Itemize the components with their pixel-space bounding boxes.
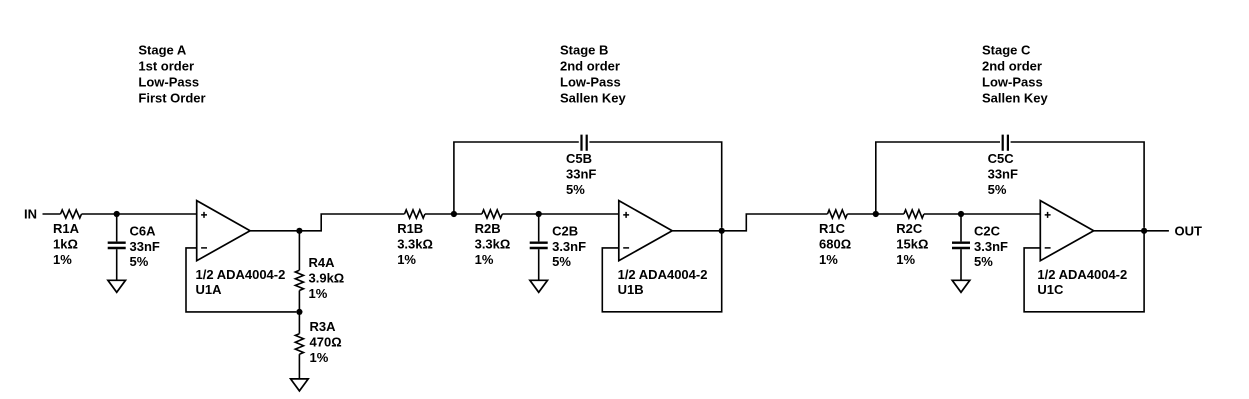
svg-text:Stage A: Stage A [138,42,187,57]
labels C5B [566,151,596,197]
labels R3A [310,319,342,365]
wire C5C right feedback [1011,142,1145,228]
labels R1C [819,221,851,267]
wire R2C to U1C + input [924,213,1040,215]
wire C6A top lead [116,214,118,241]
wire R4A top lead [298,231,300,270]
node A1 (R1A/C6A junction) [114,211,120,217]
wire C5B right feedback [589,142,721,228]
svg-text:1/2 ADA4004-2: 1/2 ADA4004-2 [196,267,286,282]
svg-text:3.3nF: 3.3nF [974,239,1008,254]
svg-text:2nd order: 2nd order [560,58,620,73]
node A3 (R4A/R3A junction) [296,309,302,315]
node B2 (R2B/C2B junction) [536,211,542,217]
wire C2C top lead [960,214,962,241]
svg-text:470Ω: 470Ω [310,335,342,350]
op-amp U1B [619,201,672,261]
labels U1A [196,267,286,297]
svg-text:33nF: 33nF [988,167,1018,182]
svg-text:U1B: U1B [618,282,644,297]
svg-text:C5C: C5C [988,151,1015,166]
svg-text:15kΩ: 15kΩ [896,236,928,251]
svg-text:1%: 1% [475,252,494,267]
ground (C6A) [108,280,126,292]
wire output lead to OUT [1144,230,1169,232]
svg-text:33nF: 33nF [130,239,160,254]
resistor R3A [295,334,303,355]
labels R1B [397,221,433,267]
ground (R3A) [291,379,309,391]
svg-text:1/2 ADA4004-2: 1/2 ADA4004-2 [618,267,708,282]
labels R2B [475,221,511,267]
svg-text:1/2 ADA4004-2: 1/2 ADA4004-2 [1037,267,1127,282]
svg-text:OUT: OUT [1175,224,1203,239]
svg-text:5%: 5% [988,182,1007,197]
svg-text:C6A: C6A [130,224,157,239]
svg-text:C5B: C5B [566,151,592,166]
svg-text:1%: 1% [53,252,72,267]
wire C2C bottom lead [960,249,962,280]
svg-text:R1B: R1B [397,221,423,236]
ground (C2B) [530,280,548,292]
capacitor C2B plates [530,243,548,248]
resistor R1B [405,210,425,218]
wire C2B bottom lead [538,249,540,280]
wire U1B output [672,230,722,232]
svg-text:5%: 5% [130,254,149,269]
svg-text:5%: 5% [566,182,585,197]
svg-text:R1C: R1C [819,221,846,236]
wire U1A output [250,230,299,232]
capacitor C5B plates [582,135,587,151]
svg-text:C2C: C2C [974,224,1001,239]
svg-text:1%: 1% [896,252,915,267]
wire U1C feedback loop [1024,231,1144,312]
svg-text:Sallen Key: Sallen Key [560,90,627,105]
node C1 (R1C/R2C/C5C junction) [873,211,879,217]
labels C5C [988,151,1018,197]
wire IN lead to R1A [43,213,61,215]
svg-text:C2B: C2B [552,224,578,239]
text block: Stage C title [982,42,1049,105]
svg-text:5%: 5% [974,254,993,269]
op-amp U1C [1040,201,1093,261]
ground (C2C) [952,280,970,292]
wire R4A to R3A [298,291,300,334]
wire C6A bottom lead [116,249,118,280]
labels C2C [974,224,1008,270]
node C2 (R2C/C2C junction) [958,211,964,217]
wire R1B to R2B [425,213,482,215]
svg-text:680Ω: 680Ω [819,236,851,251]
svg-text:3.3kΩ: 3.3kΩ [397,236,433,251]
svg-text:Low-Pass: Low-Pass [982,74,1043,89]
svg-text:R1A: R1A [53,221,80,236]
svg-text:3.3nF: 3.3nF [552,239,586,254]
resistor R2B [482,210,502,218]
svg-text:2nd order: 2nd order [982,58,1042,73]
svg-text:Stage C: Stage C [982,42,1031,57]
text block: Stage A title [138,42,205,105]
svg-text:Sallen Key: Sallen Key [982,90,1049,105]
capacitor C5C plates [1003,135,1008,151]
labels U1B [618,267,708,297]
labels C2B [552,224,586,270]
svg-text:U1C: U1C [1037,282,1064,297]
svg-text:IN: IN [24,207,37,222]
wire C2B top lead [538,214,540,241]
svg-text:3.9kΩ: 3.9kΩ [309,271,345,286]
node C3 (U1C output) [1141,228,1147,234]
node B1 (R1B/R2B/C5B junction) [451,211,457,217]
svg-text:Low-Pass: Low-Pass [560,74,621,89]
labels C6A [130,224,160,270]
svg-text:1%: 1% [819,252,838,267]
wire R3A bottom lead [298,354,300,379]
resistor R1A [61,210,82,218]
svg-text:1%: 1% [397,252,416,267]
labels R1A [53,221,80,267]
wire C5B left feedback [454,142,579,214]
labels R4A [309,255,345,301]
node A2 (U1A output) [296,228,302,234]
op-amp U1A [197,201,250,261]
capacitor C2C plates [952,243,970,248]
svg-text:R3A: R3A [310,319,337,334]
labels U1C [1037,267,1127,297]
wire R1A to U1A + input [82,213,197,215]
wire U1B feedback loop [602,231,721,312]
svg-text:R2B: R2B [475,221,501,236]
svg-text:1%: 1% [310,350,329,365]
wire R2B to U1B + input [502,213,619,215]
resistor R1C [828,210,848,218]
text block: Stage B title [560,42,627,105]
labels R2C [896,221,928,267]
wire U1A feedback to R4A/R3A junction [186,248,296,312]
svg-text:U1A: U1A [196,282,223,297]
svg-text:R2C: R2C [896,221,923,236]
resistor R4A [295,270,303,290]
capacitor C6A plates [108,243,126,248]
svg-text:3.3kΩ: 3.3kΩ [475,236,511,251]
svg-text:33nF: 33nF [566,167,596,182]
wire C5C left feedback [876,142,1000,214]
svg-text:R4A: R4A [309,255,336,270]
node B3 (U1B output) [719,228,725,234]
svg-text:5%: 5% [552,254,571,269]
svg-text:1st order: 1st order [138,58,194,73]
svg-text:1%: 1% [309,286,328,301]
svg-text:1kΩ: 1kΩ [53,236,78,251]
wire stage B output step-up to R1C [722,214,828,231]
svg-text:First Order: First Order [138,90,205,105]
svg-text:Low-Pass: Low-Pass [138,74,199,89]
wire U1C output [1094,230,1144,232]
svg-text:Stage B: Stage B [560,42,608,57]
resistor R2C [904,210,924,218]
wire stage A output step-up to R1B [299,214,404,231]
wire R1C to R2C [847,213,904,215]
